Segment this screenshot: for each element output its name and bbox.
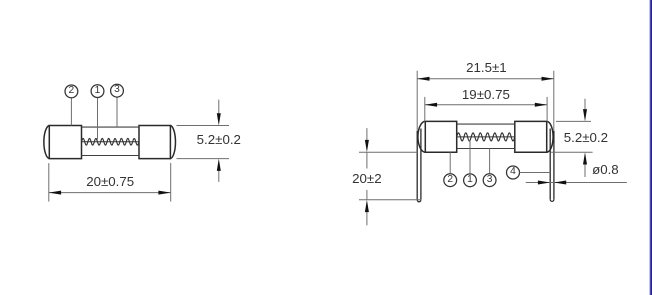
balloon circle 1 (left view) bbox=[91, 85, 104, 98]
fuse element wire (right view) bbox=[457, 136, 515, 138]
balloon digit 2 (right view) bbox=[440, 175, 460, 185]
left end cap (right view) bbox=[418, 121, 457, 152]
balloon digit 1 (left view) bbox=[88, 86, 108, 96]
leader line to part 2 (left view) bbox=[70, 98, 72, 126]
left lead wire (right view) bbox=[417, 129, 421, 202]
dimension text 19±0.75 (right view) bbox=[451, 88, 521, 101]
dimension lines 20±0.75 (left view, bottom) bbox=[49, 163, 171, 202]
balloon circle 3 (left view) bbox=[111, 84, 124, 97]
glass tube (right view) bbox=[457, 124, 515, 148]
balloon digit 3 (right view) bbox=[480, 175, 500, 185]
leader line to part 1 (right view) bbox=[469, 140, 471, 174]
left end cap (left view) bbox=[44, 126, 82, 159]
dimension line ø0.8 (lead wire diameter) bbox=[526, 182, 627, 184]
dimension text 20±0.75 (left view) bbox=[75, 175, 145, 188]
balloon circle 1 (right view) bbox=[464, 174, 477, 187]
dimension text 21.5±1 (right view) bbox=[451, 61, 521, 74]
dimension lines 21.5±1 (right view, top overall width) bbox=[417, 71, 554, 131]
right end cap (left view) bbox=[139, 126, 175, 159]
balloon circle 2 (left view) bbox=[65, 85, 78, 98]
leader line to part 2 (right view) bbox=[449, 152, 451, 174]
balloon digit 1 (right view) bbox=[460, 175, 480, 185]
dimension lines 20±2 (right view, lead length) bbox=[359, 128, 421, 225]
dimension text 20±2 (right view) bbox=[332, 172, 402, 185]
fuse element coil (right view) bbox=[457, 133, 515, 141]
leader line to part 1 (left view) bbox=[97, 98, 99, 140]
dimension text ø0.8 (right view) bbox=[570, 163, 640, 176]
dimension lines 19±0.75 (right view, body length) bbox=[425, 97, 547, 122]
dimension lines 5.2±0.2 (right view, right) bbox=[551, 99, 593, 177]
right lead wire (right view) bbox=[550, 129, 554, 202]
right end cap (right view) bbox=[515, 121, 553, 152]
glass tube (left view) bbox=[82, 127, 140, 155]
balloon circle 4 (right view) bbox=[507, 166, 520, 179]
balloon digit 3 (left view) bbox=[107, 85, 127, 95]
dimension lines 5.2±0.2 (left view, right) bbox=[177, 100, 230, 182]
leader line to part 3 (left view) bbox=[116, 97, 118, 127]
balloon digit 4 (right view) bbox=[503, 167, 523, 177]
balloon digit 2 (left view) bbox=[61, 86, 81, 96]
balloon circle 3 (right view) bbox=[483, 174, 496, 187]
dimension text 5.2±0.2 (right view) bbox=[551, 131, 621, 144]
fuse element coil (left view) bbox=[82, 139, 140, 146]
blue page edge strip (right border) bbox=[649, 0, 652, 295]
leader line from balloon 4 to lead wire bbox=[520, 172, 551, 174]
leader line to part 3 (right view) bbox=[489, 149, 491, 174]
fuse element wire (left view) bbox=[82, 141, 140, 143]
dimension text 5.2±0.2 (left view) bbox=[184, 133, 254, 146]
balloon circle 2 (right view) bbox=[444, 174, 457, 187]
